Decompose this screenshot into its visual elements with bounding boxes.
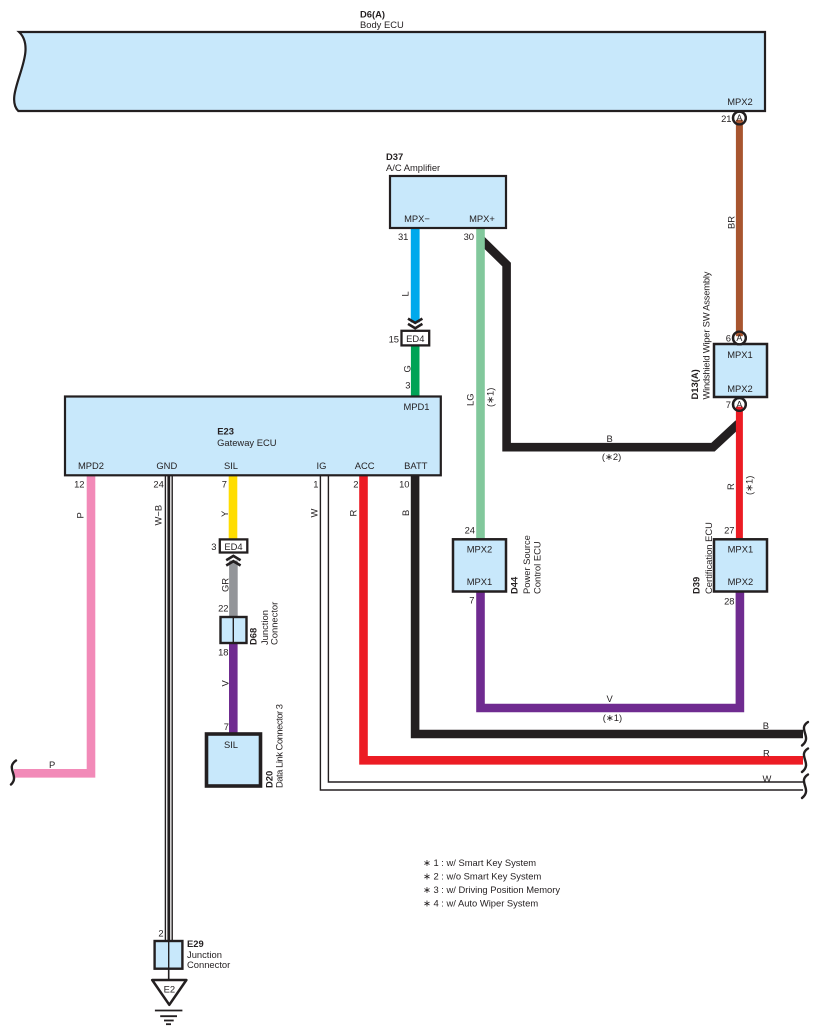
box E23 Gateway ECU <box>65 397 441 476</box>
arrow double chevron up <box>226 556 240 566</box>
svg-text:24: 24 <box>465 525 475 536</box>
svg-text:SIL: SIL <box>224 460 238 471</box>
svg-text:(∗1): (∗1) <box>485 388 496 407</box>
svg-text:L: L <box>400 291 411 296</box>
ground triangle E2 <box>152 980 186 1005</box>
svg-text:D68: D68 <box>248 628 259 645</box>
svg-text:Power Source: Power Source <box>521 535 532 594</box>
ground hatch <box>155 1011 183 1025</box>
svg-text:BATT: BATT <box>404 460 428 471</box>
box D68 Junction Connector <box>221 602 280 645</box>
wire G green <box>411 345 420 397</box>
svg-text:D13(A): D13(A) <box>689 369 700 399</box>
svg-text:D6(A): D6(A) <box>360 9 385 20</box>
svg-text:MPX2: MPX2 <box>728 576 754 587</box>
wire L blue <box>411 228 420 323</box>
wire to ground <box>168 969 170 980</box>
svg-text:P: P <box>75 512 86 518</box>
box D13(A) <box>714 344 767 397</box>
svg-text:ACC: ACC <box>355 460 375 471</box>
svg-text:∗ 1 : w/ Smart Key System: ∗ 1 : w/ Smart Key System <box>423 857 536 868</box>
svg-text:V: V <box>607 693 614 704</box>
wire Y SIL <box>229 474 238 539</box>
svg-text:G: G <box>402 365 413 372</box>
svg-text:3: 3 <box>405 380 410 391</box>
svg-text:A: A <box>736 400 742 410</box>
svg-text:MPX−: MPX− <box>404 213 430 224</box>
svg-text:3: 3 <box>211 541 216 552</box>
svg-text:B: B <box>763 720 769 731</box>
svg-text:BR: BR <box>726 216 737 229</box>
wire R (*1) D13-D39 <box>736 409 743 539</box>
svg-text:W−B: W−B <box>153 505 164 526</box>
svg-text:D44: D44 <box>509 576 520 594</box>
svg-text:(∗2): (∗2) <box>602 451 621 462</box>
svg-text:A: A <box>736 113 742 123</box>
wire B BATT <box>415 474 803 734</box>
svg-text:∗ 4 : w/ Auto Wiper System: ∗ 4 : w/ Auto Wiper System <box>423 897 538 908</box>
svg-text:V: V <box>220 680 231 687</box>
svg-text:ED4: ED4 <box>224 541 242 552</box>
svg-text:7: 7 <box>222 479 227 490</box>
box D37 A/C Amplifier <box>390 176 506 228</box>
svg-text:15: 15 <box>389 334 399 345</box>
svg-text:E29: E29 <box>187 938 204 949</box>
svg-text:A: A <box>736 333 742 343</box>
svg-text:(∗1): (∗1) <box>603 712 622 723</box>
svg-text:22: 22 <box>218 603 228 614</box>
notes <box>423 857 560 908</box>
box D6(A) Body ECU <box>14 32 765 111</box>
svg-text:28: 28 <box>724 596 734 607</box>
squiggle R right <box>802 749 808 773</box>
pin 21 circle A <box>721 112 746 125</box>
squiggle W right <box>802 775 808 799</box>
svg-text:LG: LG <box>465 393 476 406</box>
svg-text:Windshield Wiper SW Assembly: Windshield Wiper SW Assembly <box>701 271 712 399</box>
svg-text:2: 2 <box>158 928 163 939</box>
svg-text:10: 10 <box>399 479 409 490</box>
svg-text:E2: E2 <box>164 984 175 995</box>
arrow double chevron down <box>408 319 422 329</box>
svg-text:7: 7 <box>224 721 229 732</box>
svg-text:21: 21 <box>721 113 731 124</box>
svg-text:24: 24 <box>153 479 163 490</box>
box D39 Certification ECU <box>691 522 768 594</box>
svg-text:MPX2: MPX2 <box>727 383 753 394</box>
svg-text:D39: D39 <box>691 577 702 594</box>
svg-text:P: P <box>49 759 55 770</box>
svg-text:MPX+: MPX+ <box>469 213 495 224</box>
box E29 Junction Connector <box>155 938 231 970</box>
svg-text:IG: IG <box>317 460 327 471</box>
pin 6 circle A <box>726 331 746 344</box>
wire R ACC <box>364 474 804 760</box>
svg-text:SIL: SIL <box>224 739 238 750</box>
wire V D68-D20 <box>229 643 238 734</box>
svg-text:Connector: Connector <box>269 602 280 645</box>
svg-text:6: 6 <box>726 333 731 344</box>
wire BR brown <box>736 123 743 333</box>
svg-text:18: 18 <box>218 647 228 658</box>
svg-text:30: 30 <box>464 231 474 242</box>
connector ED4 (3) <box>211 539 247 552</box>
wire GR <box>229 561 238 618</box>
svg-text:E23: E23 <box>217 426 234 437</box>
svg-text:GND: GND <box>156 460 177 471</box>
svg-text:∗ 3 : w/ Driving Position Memo: ∗ 3 : w/ Driving Position Memory <box>423 884 560 895</box>
svg-text:27: 27 <box>724 525 734 536</box>
box D20 Data Link Connector 3 <box>207 704 285 788</box>
wire W IG (white with outline) <box>324 474 803 786</box>
svg-text:∗ 2 : w/o Smart Key System: ∗ 2 : w/o Smart Key System <box>423 870 541 881</box>
svg-text:MPX1: MPX1 <box>727 349 753 360</box>
svg-text:12: 12 <box>74 479 84 490</box>
squiggle B right <box>802 722 808 746</box>
svg-text:(∗1): (∗1) <box>744 476 755 495</box>
svg-text:7: 7 <box>726 399 731 410</box>
box D44 Power Source Control ECU <box>453 535 543 594</box>
svg-text:D37: D37 <box>386 151 403 162</box>
svg-text:MPD1: MPD1 <box>403 401 429 412</box>
svg-text:MPD2: MPD2 <box>78 460 104 471</box>
svg-text:Body ECU: Body ECU <box>360 19 404 30</box>
svg-text:B: B <box>607 433 613 444</box>
wire V (*1) D44-D39 <box>481 591 740 708</box>
svg-text:Y: Y <box>219 510 230 517</box>
wire P MPD2 <box>14 474 91 773</box>
svg-text:GR: GR <box>220 578 231 592</box>
svg-text:MPX1: MPX1 <box>467 576 493 587</box>
svg-text:R: R <box>763 748 770 759</box>
svg-text:R: R <box>725 483 736 490</box>
svg-text:1: 1 <box>313 479 318 490</box>
connector ED4 (15) <box>389 331 430 346</box>
svg-text:W: W <box>309 509 320 518</box>
pin 7 circle A <box>726 398 746 411</box>
svg-text:ED4: ED4 <box>406 333 424 344</box>
wire LG light green <box>476 228 485 539</box>
wire W-B GND vertical <box>165 474 173 941</box>
svg-text:Control ECU: Control ECU <box>532 541 543 594</box>
squiggle pink left <box>11 761 16 785</box>
svg-text:Connector: Connector <box>187 959 230 970</box>
svg-text:MPX2: MPX2 <box>467 544 493 555</box>
svg-text:W: W <box>763 773 772 784</box>
wire B (*2) from D37 pin30 <box>481 240 739 448</box>
svg-text:Certification ECU: Certification ECU <box>703 522 714 594</box>
svg-text:A/C Amplifier: A/C Amplifier <box>386 162 440 173</box>
svg-text:Gateway ECU: Gateway ECU <box>217 437 277 448</box>
svg-text:2: 2 <box>353 479 358 490</box>
svg-text:7: 7 <box>469 595 474 606</box>
svg-text:MPX2: MPX2 <box>727 96 753 107</box>
svg-text:MPX1: MPX1 <box>728 544 754 555</box>
svg-text:B: B <box>400 510 411 516</box>
svg-text:R: R <box>348 510 359 517</box>
svg-text:Data Link Connector 3: Data Link Connector 3 <box>274 704 285 788</box>
svg-text:31: 31 <box>398 231 408 242</box>
